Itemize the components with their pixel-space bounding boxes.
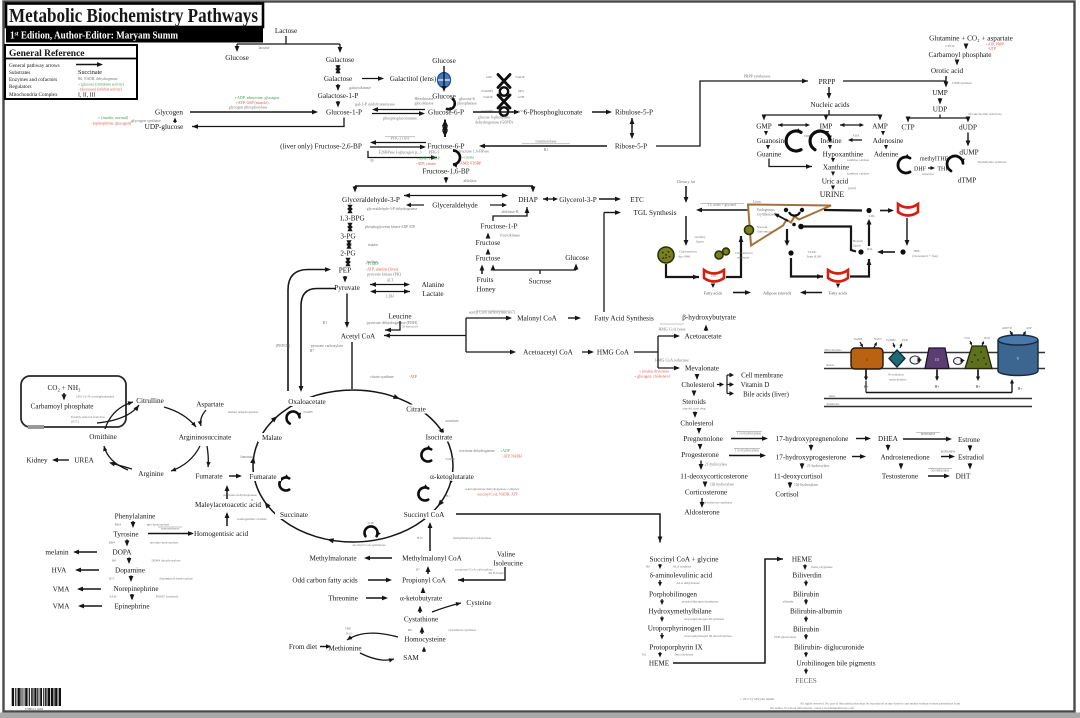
wire Leucine to Acetyl CoA (385, 321, 418, 332)
ATP synthase blue cylinder (998, 326, 1038, 376)
wire liver to LDL (824, 209, 862, 212)
arc Methionine to SAM (360, 653, 394, 663)
arrow to IMP (824, 115, 829, 121)
svg-text:+ADP: +ADP (500, 449, 509, 453)
PFK regulator labels (416, 149, 489, 168)
arrow Fumarate to Fumarate TCA (229, 474, 242, 479)
svg-text:THF: THF (345, 627, 351, 631)
arrow Androstenedione to Estradiol (941, 450, 956, 459)
svg-text:Fatty acids: Fatty acids (704, 291, 723, 296)
node DOPA (113, 549, 133, 557)
hexokinase circular arrow (446, 99, 455, 112)
svg-text:Leucine: Leucine (388, 313, 411, 321)
arrow to Carbamoyl phosphate (62, 393, 114, 401)
svg-text:DHAP: DHAP (518, 196, 538, 204)
arrow AMP to Adenosine (881, 131, 885, 136)
node From diet (289, 643, 317, 651)
node dTMP (958, 177, 976, 185)
node Acetoacetyl CoA (523, 349, 574, 357)
svg-text:Fructose: Fructose (476, 239, 501, 247)
svg-text:All rights reserved. No part o: All rights reserved. No part of this pub… (800, 702, 961, 706)
svg-text:acetyl CoA carboxylase (B7): acetyl CoA carboxylase (B7) (469, 310, 516, 315)
node HEME 1 (649, 660, 670, 668)
node UMP (932, 89, 948, 97)
svg-text:uroporphyrinogen III synthase: uroporphyrinogen III synthase (684, 617, 725, 621)
svg-text:Androstenedione: Androstenedione (880, 454, 929, 462)
node 11-deoxycortisol (774, 473, 822, 481)
svg-text:remnants: remnants (737, 256, 750, 260)
arrow to Acetoacetyl CoA (466, 350, 516, 355)
svg-text:Succinyl CoA + glycine: Succinyl CoA + glycine (650, 556, 719, 564)
arrow 6PG to Ribulose-5-P (592, 110, 612, 115)
svg-text:Glycerol-3-P: Glycerol-3-P (559, 196, 597, 204)
svg-text:TGL Synthesis: TGL Synthesis (633, 209, 676, 217)
svg-text:V: V (1016, 356, 1019, 361)
svg-text:aromatase: aromatase (941, 450, 956, 454)
complex III purple (925, 348, 949, 369)
svg-text:melanin: melanin (45, 549, 69, 557)
svg-text:pyruvate carboxylase: pyruvate carboxylase (311, 344, 344, 348)
node Bilirubin- diglucuronide (794, 644, 864, 652)
node DHEA (878, 435, 899, 443)
svg-text:succinate dehydrogenase: succinate dehydrogenase (223, 493, 257, 497)
arrow UDP to CTP (906, 117, 911, 123)
svg-text:Pregnenolone: Pregnenolone (683, 435, 723, 443)
arrow LPL to fatty acids (711, 284, 715, 289)
node Porphobilinogen (649, 591, 697, 599)
svg-text:ADA: ADA (853, 134, 861, 138)
node UDP-glucose (145, 123, 184, 131)
arrow to urobilinogen (804, 652, 808, 658)
svg-text:Cystathione: Cystathione (404, 616, 438, 624)
node Androstenedione (880, 454, 929, 462)
mitochondria membrane lines (824, 348, 1045, 369)
arrow GMP IMP interconvert (778, 123, 810, 127)
svg-text:Dietary fat: Dietary fat (677, 179, 696, 184)
node DHF (914, 167, 927, 173)
wire FAS to TGL elbow (603, 213, 605, 313)
svg-text:B-ketoacid: B-ketoacid (402, 325, 418, 329)
svg-text:+F16BP: +F16BP (365, 261, 379, 266)
svg-text:porphobilinogen deaminase: porphobilinogen deaminase (682, 600, 719, 604)
node Glucose-6-P (428, 109, 464, 117)
svg-text:11β-hydroxylase: 11β-hydroxylase (710, 483, 734, 487)
arrow Galactose down (335, 65, 340, 74)
arrow Acetoacetyl to HMG CoA (582, 350, 594, 355)
svg-text:17-hydroxypregnenolone: 17-hydroxypregnenolone (776, 435, 849, 443)
arrow Cholesterol to Steroids (692, 391, 697, 397)
svg-text:Fumarate: Fumarate (195, 473, 222, 481)
node Succinate (275, 510, 313, 519)
svg-text:mitochondria: mitochondria (890, 378, 908, 382)
wire F26BP elbow to PFK (368, 151, 437, 163)
arrow fatty acids2 to adipose (800, 290, 822, 295)
svg-text:Glyceraldehyde-3-P: Glyceraldehyde-3-P (342, 196, 400, 204)
svg-text:From diet: From diet (289, 643, 317, 651)
svg-text:Kidney: Kidney (26, 457, 48, 465)
node Acetyl CoA (341, 333, 376, 341)
arrow G6P to G1P (372, 111, 425, 120)
svg-text:transketolase: transketolase (536, 139, 557, 144)
svg-text:DHEA: DHEA (878, 435, 899, 443)
cofactor arc succinate DH (279, 474, 289, 490)
dietary fat label (677, 179, 696, 184)
node Arginine (138, 470, 163, 478)
arrow Tyr to DOPA (109, 540, 179, 547)
svg-text:General Reference: General Reference (9, 49, 85, 59)
svg-text:Fumarate: Fumarate (249, 473, 276, 481)
arrow glutamine to carbamoyl P (945, 43, 1004, 52)
svg-text:Homogentisic acid: Homogentisic acid (194, 530, 248, 538)
node melanin (45, 549, 69, 557)
arc Pyruvate to OAA (pyruvate carboxylase) (299, 289, 344, 393)
svg-text:+citrate: +citrate (462, 155, 474, 160)
arrow Pregnenolone to 17OHpreg (731, 432, 768, 441)
node Hypoxanthine (823, 151, 864, 159)
node Glyceraldehyde (432, 202, 478, 210)
node Methionine (328, 645, 361, 653)
svg-text:Galactose-1-P: Galactose-1-P (318, 92, 359, 100)
svg-text:fructokinase: fructokinase (500, 233, 520, 238)
legend row mitochondria complex (9, 92, 95, 99)
node Hydroxymethylbilane (648, 608, 711, 616)
node Adipose stored (763, 291, 792, 296)
arrow IMP AMP interconvert (840, 123, 864, 127)
svg-text:17α-hydroxylase: 17α-hydroxylase (737, 432, 762, 436)
arrow orotic to UMP (944, 76, 973, 88)
svg-text:PNMT (cortisol): PNMT (cortisol) (156, 595, 179, 599)
node PRPP (819, 78, 836, 86)
svg-text:Guanosine: Guanosine (757, 137, 788, 145)
title box (6, 4, 263, 28)
svg-text:Isoleucine: Isoleucine (493, 560, 523, 568)
svg-text:HVA: HVA (52, 567, 67, 575)
arrow Homogentisic to Maleylacetoacetic (225, 512, 268, 526)
svg-text:Hydroxymethylbilane: Hydroxymethylbilane (648, 608, 711, 616)
wire beta-ox return to Acetyl CoA (384, 333, 466, 338)
svg-text:Xanthine: Xanthine (823, 164, 849, 172)
svg-text:(synthesized): (synthesized) (757, 213, 777, 217)
svg-text:Carbamoyl phosphate: Carbamoyl phosphate (31, 403, 94, 411)
cofactor arc HGPRT hypoxanthine salvage (810, 131, 832, 150)
wire IDL to LDL (853, 219, 872, 248)
node Glucose top-left (225, 54, 249, 62)
node Leucine (388, 313, 411, 321)
arrow Homocysteine to Cystathione (408, 627, 476, 635)
arrow to Acetoacetate (658, 324, 686, 338)
svg-text:G6P: G6P (486, 75, 492, 79)
arrow UREA to Kidney (52, 458, 69, 463)
svg-text:Adenine: Adenine (874, 151, 898, 159)
svg-text:Lactate: Lactate (422, 290, 443, 298)
node Ribulose-5-P (615, 109, 653, 117)
svg-text:Liver: Liver (753, 200, 762, 204)
svg-text:LDH: LDH (386, 295, 394, 299)
regulator labels glycogenolysis (229, 95, 280, 110)
svg-text:HMG CoA: HMG CoA (597, 349, 630, 357)
arrow to Galactose (from lactose) (338, 44, 343, 53)
node Threonine (328, 595, 358, 603)
svg-text:H2O: H2O (984, 336, 991, 340)
arrow to GMP (762, 115, 767, 121)
arrow Adenosine to Inosine (848, 134, 862, 143)
node Succinyl CoA (399, 510, 449, 519)
node Uroporphyrinogen III (648, 625, 711, 633)
svg-text:FADH2: FADH2 (886, 338, 896, 342)
cofactor arc succinyl CoA synthetase (352, 521, 386, 547)
svg-text:CO₂ + NH₃: CO₂ + NH₃ (47, 384, 81, 392)
arrow to uroporphyrinogen (660, 617, 725, 623)
arrow Fructose to Fructose (486, 249, 491, 255)
wire HEME to HEME2 (673, 557, 783, 663)
wire glucose through transporter (442, 66, 447, 92)
complex IV olive (964, 336, 992, 369)
svg-text:THF: THF (937, 167, 949, 173)
svg-text:Maleylacetoacetic acid: Maleylacetoacetic acid (195, 501, 261, 509)
svg-text:Fe2: Fe2 (642, 653, 647, 657)
arrow Arginine to UREA (109, 462, 132, 469)
svg-text:reductase: reductase (922, 172, 935, 176)
svg-text:α-ketoglutarate: α-ketoglutarate (430, 473, 474, 481)
arrow 11DOC to Corticosterone (703, 482, 735, 488)
svg-text:PFK-1: PFK-1 (429, 150, 440, 155)
svg-text:11-deoxycortisol: 11-deoxycortisol (774, 473, 822, 481)
svg-text:Alanine: Alanine (422, 281, 445, 289)
node HMG CoA (597, 349, 630, 357)
arrow DOPA to Dopamine (112, 558, 181, 565)
svg-text:½O2: ½O2 (964, 336, 970, 340)
svg-text:BH4: BH4 (115, 523, 122, 527)
node SAM (403, 654, 419, 662)
arrow Progesterone to 11-DOC (699, 461, 728, 471)
svg-text:11-deoxycorticosterone: 11-deoxycorticosterone (680, 473, 748, 481)
node Propionyl CoA (402, 577, 447, 585)
node Odd carbon fatty acids (292, 577, 357, 585)
arrow 17OHpreg to 17OHprog (809, 445, 814, 452)
arrow Cystathione to aKB (418, 606, 423, 614)
node Dopamine (115, 567, 145, 575)
arrow Guanosine to Guanine (766, 145, 770, 150)
svg-text:Dopamine: Dopamine (115, 567, 145, 575)
svg-text:Endogenous: Endogenous (757, 208, 775, 212)
H+ pumping arrows (864, 370, 981, 390)
svg-text:B7: B7 (416, 568, 420, 572)
node 11-deoxycorticosterone (680, 473, 748, 481)
node Glucose-1-P (326, 109, 362, 117)
UDP split bracket (908, 112, 1002, 118)
node Glucose cytosol (432, 93, 456, 101)
svg-text:gal-1-P uridyltransferase: gal-1-P uridyltransferase (355, 102, 395, 107)
svg-text:Glyceraldehyde: Glyceraldehyde (432, 202, 478, 210)
node Norepinephrine (113, 585, 158, 593)
triangle arrow to label (774, 214, 788, 222)
svg-text:NADP: NADP (515, 75, 524, 79)
svg-text:(liver only) Fructose-2,6-BP: (liver only) Fructose-2,6-BP (280, 143, 362, 151)
cofactor arc HGPRT guanine salvage (786, 128, 812, 151)
svg-text:Ribulose-5-P: Ribulose-5-P (615, 109, 653, 117)
arc AS to Fumarate urea (206, 446, 210, 467)
svg-text:glucokinase: glucokinase (414, 101, 433, 106)
node beta-hydroxybutyrate (682, 314, 736, 322)
arrow DHEA to Estrone (903, 432, 952, 441)
svg-text:HMG CoA reductase: HMG CoA reductase (655, 358, 689, 363)
svg-text:1,3-BPG: 1,3-BPG (339, 215, 364, 223)
node 2-PG (340, 250, 355, 258)
arrow DHEA to Androstenedione (886, 445, 891, 452)
node Urobilinogen bile pigments (796, 660, 875, 668)
node Citrulline (136, 397, 164, 405)
arrow Ribose-5-P to Fructose-6-P (479, 139, 607, 153)
arrow PEP to Pyruvate (343, 276, 348, 283)
svg-text:Uroporphyrinogen III: Uroporphyrinogen III (648, 625, 711, 633)
node HEME 2 (792, 556, 813, 564)
svg-text:ADP+Pi: ADP+Pi (1002, 326, 1012, 330)
svg-text:membrane: membrane (827, 402, 840, 406)
node FECES (795, 677, 817, 685)
wire Succinyl CoA to heme (456, 514, 662, 543)
svg-text:ETC: ETC (630, 196, 644, 204)
complex I orange (851, 337, 883, 369)
svg-text:Honey: Honey (476, 286, 496, 294)
node Homocysteine (404, 636, 446, 644)
svg-text:UDP glucuronate: UDP glucuronate (774, 635, 797, 639)
svg-text:HEME: HEME (792, 556, 813, 564)
arc Citrulline to AS (164, 407, 196, 427)
svg-text:methylTHF: methylTHF (920, 157, 949, 163)
svg-text:Chylomicron: Chylomicron (679, 250, 697, 254)
svg-text:methylmalonyl CoA mutase: methylmalonyl CoA mutase (453, 536, 492, 540)
malate DH labels (228, 410, 313, 414)
arrow Testosterone to DHT (928, 469, 952, 479)
wire aldolase split bar (355, 178, 533, 186)
svg-text:ALT: ALT (387, 279, 394, 283)
svg-text:Biliverdin: Biliverdin (792, 572, 822, 580)
svg-text:6PG: 6PG (518, 89, 525, 93)
PEP regulator labels (365, 261, 401, 277)
node Testosterone (882, 473, 918, 481)
svg-text:FAD: FAD (902, 338, 909, 342)
arrow Uric acid to URINE (831, 186, 856, 191)
aKG DH labels (446, 487, 519, 498)
node PEP (339, 267, 351, 275)
arrow TG to fatty acids glycerol (696, 203, 748, 212)
wire Glucose-1-P to UDP-glucose (192, 118, 344, 129)
node Ornithine (89, 433, 117, 441)
node Valine Isoleucine (493, 551, 523, 568)
arrow Cholesterol2 to Pregnenolone (697, 428, 702, 434)
arrow to hydroxymethylbilane (660, 599, 719, 605)
wire HMG bracket (634, 336, 658, 368)
svg-text:B6: B6 (112, 559, 116, 563)
svg-text:Malate: Malate (262, 434, 282, 442)
svg-text:Methylmalonate: Methylmalonate (309, 555, 356, 563)
chylomicron remnants (715, 248, 753, 259)
node Isocitrate (420, 433, 458, 442)
svg-text:UDP-glucose: UDP-glucose (145, 123, 184, 131)
svg-text:Isocitrate: Isocitrate (426, 434, 453, 442)
node Cholesterol (681, 381, 714, 389)
node Sucrose (529, 278, 552, 286)
wire chylomicron to LPL (666, 264, 699, 279)
arrow Sucrose-split to Fructose (491, 265, 496, 271)
svg-text:VMA: VMA (53, 603, 71, 611)
svg-text:Cholesterol: Cholesterol (681, 381, 714, 389)
svg-text:Acetoacetate: Acetoacetate (684, 333, 721, 341)
triangle VLDL dots (784, 208, 804, 216)
svg-text:GSH: GSH (518, 95, 525, 99)
svg-text:(cholesterol + free): (cholesterol + free) (912, 254, 938, 258)
cytochrome c (954, 358, 966, 365)
svg-text:thymidylate synthase: thymidylate synthase (978, 160, 1007, 164)
svg-text:Norepinephrine: Norepinephrine (113, 585, 158, 593)
node Bilirubin 2 (793, 626, 819, 634)
arrow aKB to Propionyl (421, 587, 426, 593)
node Galactose-1-P (318, 92, 359, 100)
svg-text:B1 B-KAD: B1 B-KAD (488, 571, 504, 575)
svg-text:UREA: UREA (74, 457, 94, 465)
node VMA 2 (53, 603, 71, 611)
svg-text:21-hydroxylase: 21-hydroxylase (807, 464, 830, 468)
svg-text:-ATP: -ATP (409, 375, 417, 379)
svg-text:Cysteine: Cysteine (466, 599, 491, 607)
node alpha-ketoglutarate (423, 472, 481, 481)
lipase icon LPL capillary (704, 270, 724, 282)
node DHAP (518, 196, 538, 204)
svg-text:Glucose-6-P: Glucose-6-P (428, 109, 464, 117)
node Carbamoyl phosphate (31, 403, 94, 411)
node Glycogen (155, 109, 183, 117)
svg-text:Regulators: Regulators (9, 84, 31, 90)
node Epinephrine (114, 603, 149, 611)
arrow 11-deoxycortisol to Cortisol (788, 482, 819, 489)
node Cortisol (775, 491, 798, 499)
arc Aspartate to AS (198, 410, 206, 426)
svg-text:FECES: FECES (795, 677, 817, 685)
svg-text:9 8804 5 2660: 9 8804 5 2660 (25, 707, 44, 711)
arrow to porphobilinogen (658, 580, 700, 587)
svg-text:CPS I (+N-acetylglutamate): CPS I (+N-acetylglutamate) (76, 395, 114, 399)
arrow Methylmalonyl to Methylmalonate (364, 556, 392, 561)
svg-text:albumin: albumin (783, 600, 794, 604)
svg-text:Fructose: Fructose (476, 255, 501, 263)
node 3-PG (340, 233, 355, 241)
complex II teal diamond (886, 338, 908, 382)
svg-text:xanthine oxidase: xanthine oxidase (847, 172, 870, 176)
arrow Androstenedione to Testosterone (899, 463, 904, 470)
svg-text:aconitase: aconitase (445, 419, 459, 423)
arrow HEME to Biliverdin (803, 565, 833, 571)
svg-text:Glycogen: Glycogen (155, 109, 183, 117)
svg-text:α-ketobutyrate: α-ketobutyrate (400, 595, 442, 603)
svg-text:Fructose-1-P: Fructose-1-P (480, 223, 517, 231)
svg-text:Propionyl CoA: Propionyl CoA (402, 577, 447, 585)
svg-text:Protoporphyrin IX: Protoporphyrin IX (649, 644, 703, 652)
svg-text:Mevalonate: Mevalonate (685, 365, 719, 373)
node Guanine (757, 151, 781, 159)
node Fructose dietary (476, 255, 501, 263)
arrow Pyruvate to Alanine (370, 279, 410, 287)
svg-text:glycogen phosphorylase: glycogen phosphorylase (229, 105, 268, 110)
arrow to Bilirubin 2 (804, 617, 808, 623)
node Ribose-5-P (615, 143, 647, 151)
svg-text:Cholesterol: Cholesterol (680, 420, 713, 428)
arrow split to G3P (353, 186, 358, 193)
node (liver only) Fructose-2,6-BP (280, 143, 362, 151)
arrow 17OHprog to Androstenedione (852, 454, 866, 459)
arrow G6P to F6P reversible (442, 120, 448, 138)
arrow Inosine to Hypoxanthine (828, 145, 832, 150)
svg-text:Methylmalonyl CoA: Methylmalonyl CoA (402, 555, 463, 563)
